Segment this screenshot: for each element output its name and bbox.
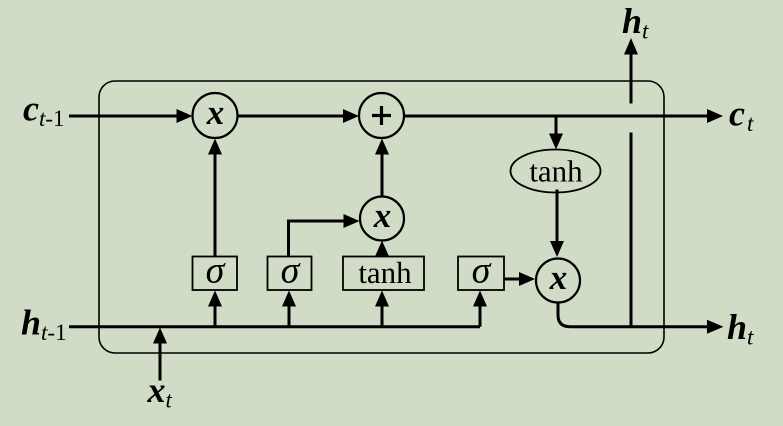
svg-text:tanh: tanh (358, 255, 412, 290)
svg-text:x: x (373, 196, 392, 235)
wire multiply3 to h output (558, 303, 708, 327)
wire c from multiply1 to add (238, 115, 345, 118)
wire h branch up lower segment (630, 133, 633, 327)
multiply node 3 (536, 259, 580, 303)
svg-text:ht: ht (727, 307, 754, 350)
tanh gate (343, 257, 424, 291)
multiply node 2 (360, 197, 404, 241)
wire c input (69, 115, 178, 118)
svg-text:σ: σ (281, 250, 301, 292)
input x_t arrow (159, 343, 162, 381)
svg-text:x: x (206, 93, 225, 132)
cell boundary rounded rectangle (99, 81, 664, 353)
wire sigma1 to multiply1 (214, 154, 217, 257)
tanh activation ellipse (511, 150, 601, 193)
wire sigma3 to multiply3 (504, 278, 520, 281)
multiply node 1 (193, 93, 238, 138)
svg-text:tanh: tanh (529, 154, 583, 189)
wire sigma2 to multiply2 elbow (289, 221, 345, 257)
svg-text:xt: xt (147, 370, 173, 413)
wire h to sigma1 (214, 306, 217, 327)
wire tanh ellipse to multiply3 (556, 190, 559, 243)
wire h to sigma2 (288, 306, 291, 327)
svg-text:ht: ht (622, 1, 649, 44)
wire multiply2 to add (381, 154, 384, 197)
wire h to tanh gate (381, 306, 384, 327)
svg-text:ht-1: ht-1 (21, 303, 67, 346)
wire h branch up upper segment (630, 54, 633, 104)
add node (359, 93, 404, 138)
svg-text:ct-1: ct-1 (23, 89, 65, 132)
wire h to sigma3 (479, 306, 482, 327)
wire tanh gate to multiply2 (375, 241, 389, 257)
wire c output (404, 115, 708, 118)
sigma gate 1 (193, 257, 238, 291)
sigma gate 2 (268, 257, 312, 291)
svg-text:σ: σ (472, 250, 492, 292)
sigma gate 3 (458, 257, 504, 291)
svg-text:x: x (549, 258, 568, 297)
svg-text:ct: ct (729, 94, 754, 137)
wire branch from c to tanh ellipse (555, 117, 558, 134)
wire h input (69, 325, 480, 328)
